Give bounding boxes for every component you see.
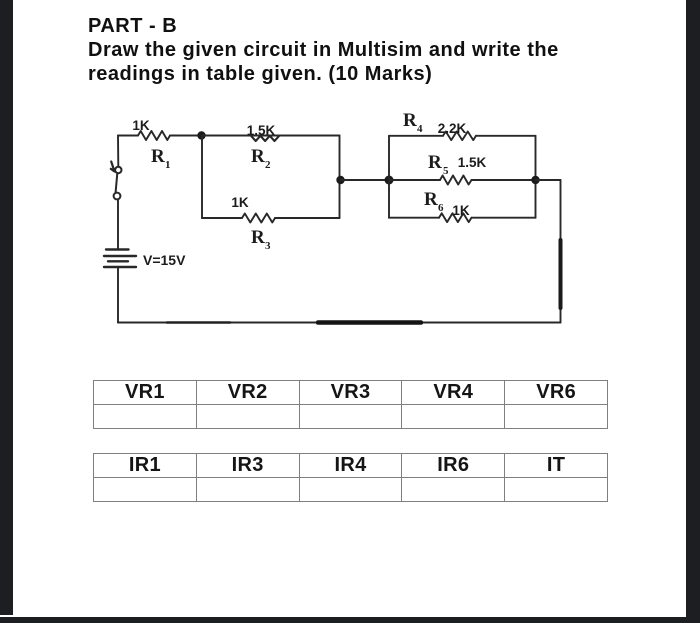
bottom black bar [0,617,700,623]
resistor R4 [443,132,476,141]
resistor R6 [439,213,471,222]
switch S1 blade [116,173,118,192]
label 1K for R6 [452,203,470,218]
node A junction dot [197,131,205,139]
node D junction dot [531,176,539,184]
wire top-left segment [118,135,138,137]
wire middle branch right [472,179,536,181]
label R3 [251,227,271,252]
wire right vertical [560,180,562,323]
left black bar [0,0,13,615]
wire top branch left [389,135,443,137]
wire top-left vertical to switch [117,136,119,167]
node B junction dot [336,176,344,184]
wire bottom branch right [472,217,536,219]
wire bottom thick overdraw [318,320,421,325]
resistor R5 [440,176,472,185]
wire loop1 bottom left [202,217,242,219]
wire middle branch left [389,179,440,181]
wire bottom return [118,322,561,324]
heading text [88,14,559,86]
wire top branch right [476,135,536,137]
wire right vertical thick overdraw [559,240,563,308]
table currents [93,453,608,502]
svg-text:3: 3 [265,240,271,252]
label 1.5K for R5 [458,155,487,170]
wire battery to bottom [117,267,119,323]
svg-text:1: 1 [165,159,171,171]
label 1.5K for R2 [247,123,276,138]
wire loop1 right side [339,136,341,219]
svg-text:R: R [424,189,438,210]
wire bottom slight overdraw [167,321,230,324]
right black bar [686,0,700,619]
svg-text:R: R [403,110,417,131]
wire loop1 bottom right [275,217,340,219]
svg-text:4: 4 [417,123,423,135]
node C junction dot [385,176,394,185]
resistor R2 [202,136,340,142]
battery V1 plates [104,250,136,268]
svg-text:5: 5 [443,165,449,177]
label R4 [403,110,423,135]
svg-text:R: R [251,227,265,248]
wire node B to node C [341,179,390,181]
label 1K for R3 [231,195,249,210]
circuit schematic [0,0,700,360]
svg-text:2.2K: 2.2K [438,121,467,136]
svg-text:R: R [428,152,442,173]
label 1K for R1 [132,118,150,133]
resistor R3 [242,214,275,223]
switch S1 upper contact [115,167,121,173]
svg-text:1.5K: 1.5K [247,123,276,138]
svg-text:1K: 1K [231,195,249,210]
wire R1 to node A [170,135,202,137]
label R6 [424,189,444,214]
table voltages [93,380,608,429]
svg-text:R: R [151,146,165,167]
svg-text:1.5K: 1.5K [458,155,487,170]
label 2.2K for R4 [438,121,467,136]
svg-text:2: 2 [265,159,271,171]
wire bottom branch left [389,217,439,219]
label R2 [251,146,271,171]
switch S1 lever barb [111,162,115,172]
svg-text:1K: 1K [452,203,470,218]
svg-text:6: 6 [438,202,444,214]
svg-text:1K: 1K [132,118,150,133]
label R5 [428,152,449,177]
wire group2 right side [535,136,537,218]
resistor R1 [138,131,170,140]
svg-text:R: R [251,146,265,167]
switch S1 lower contact [114,193,121,200]
label V=15V [143,252,186,268]
label R1 [151,146,171,171]
wire switch to battery [117,200,119,250]
wire group2 left side [388,136,390,218]
svg-text:V=15V: V=15V [143,252,186,268]
wire node D to right corner [536,179,561,181]
wire node A to R2 [202,135,251,137]
wire loop1 left side [201,136,203,219]
